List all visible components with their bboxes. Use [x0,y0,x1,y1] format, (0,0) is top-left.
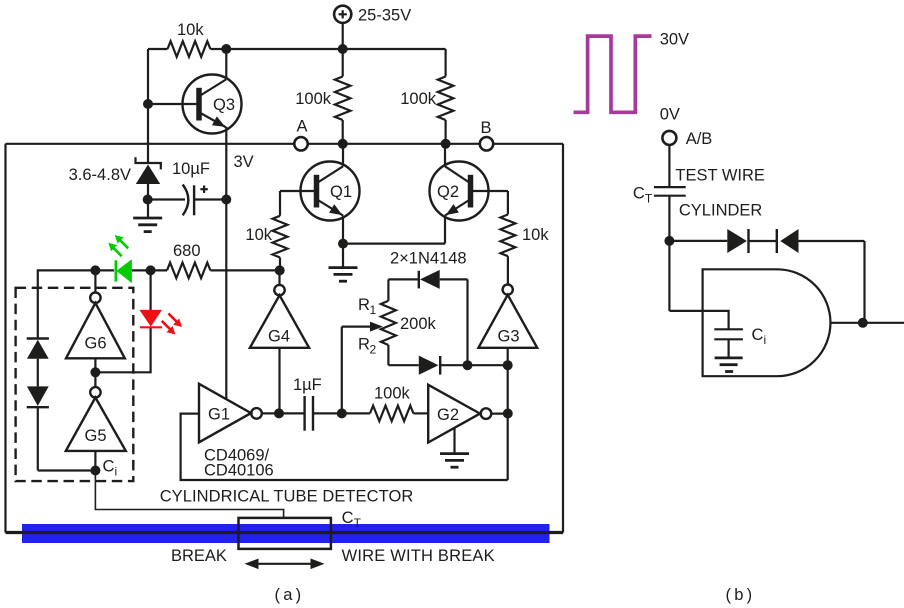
wire to Ci node [38,469,96,471]
wire Q3 emitter down to G1 [225,127,227,399]
svg-text:i: i [764,333,767,347]
svg-text:(b): (b) [726,586,756,604]
arrow double-headed [245,559,325,570]
svg-text:Q1: Q1 [330,183,352,201]
node dot A/B diode tap [664,236,674,246]
svg-text:G3: G3 [498,328,520,346]
node A terminal [294,137,307,150]
svg-text:CYLINDER: CYLINDER [679,202,763,220]
wire A-B top rail [6,143,564,145]
wire Ci to tube [95,471,283,518]
node dot Q3 base [143,99,153,109]
outer box left edge [4,144,6,533]
diode D6 (upper, cathode up) [27,339,49,387]
svg-text:200k: 200k [400,315,437,333]
node dot top rail / supply [338,44,348,54]
resistor 100k (A side) [342,49,344,77]
transistor Q1 [280,162,360,221]
tube box [239,518,331,549]
wire ground stub [342,244,344,268]
svg-text:T: T [645,192,653,206]
wire A/B down [668,145,670,187]
svg-text:(a): (a) [275,586,305,604]
inverter G4 [250,270,309,413]
wire wiper down [341,327,343,414]
svg-text:C: C [342,509,354,527]
wire Q2 base branch [507,191,509,215]
terminal A/B [662,131,676,145]
diode D7 (lower, cathode down) [27,386,49,470]
wire D1 right corner down [466,279,468,365]
wire feedback vertical x=508 [507,365,509,480]
wire top rail y=49 [148,48,168,50]
inverter G3 [478,285,537,366]
node dot 680 / 10k / G4 output [275,265,285,275]
outer box right edge [562,144,564,533]
ground (zener) [133,218,162,232]
blue wire [22,524,550,543]
wire Q1 base branch [279,191,281,216]
node dot gate output [858,318,868,328]
wire Ci ground stub [727,339,729,358]
resistor 100k (B side) [445,49,447,77]
inverter G5 [66,387,126,470]
svg-text:10µF: 10µF [172,160,210,178]
svg-text:G6: G6 [85,335,107,353]
svg-text:WIRE WITH BREAK: WIRE WITH BREAK [342,547,495,565]
svg-text:BREAK: BREAK [171,547,227,565]
node dot A / Q1 collector [338,139,348,149]
wire diode row [669,240,727,242]
wire supply drop [342,23,344,49]
node dot green LED / red LED / 680 [146,265,156,275]
LED green [108,235,132,283]
svg-text:G4: G4 [268,328,290,346]
wire Q1 collector [342,144,344,167]
svg-text:10k: 10k [522,226,549,244]
capacitor CT (b) [654,187,686,196]
svg-text:A: A [297,118,308,136]
waveform 30V pulse [574,36,652,112]
node dot B / Q2 collector [441,139,451,149]
svg-text:G1: G1 [208,406,230,424]
svg-text:R: R [358,336,370,354]
node dot D2 / D1 [463,360,473,370]
node dot zener/cap [143,195,153,205]
svg-text:A/B: A/B [686,130,713,148]
svg-text:CYLINDRICAL TUBE DETECTOR: CYLINDRICAL TUBE DETECTOR [160,488,414,506]
ground (Ci b) [715,358,743,372]
svg-text:TEST WIRE: TEST WIRE [675,166,765,184]
svg-text:3.6-4.8V: 3.6-4.8V [69,166,131,184]
wire emitters join [343,243,445,245]
wire gate input [669,311,728,329]
wire gate output [830,322,904,324]
potentiometer R1 R2 200k [342,279,396,365]
svg-text:G2: G2 [437,406,459,424]
svg-text:B: B [481,119,492,137]
node dot G2 output [503,409,513,419]
svg-text:1µF: 1µF [293,376,322,394]
wire Q1 emitter [342,216,344,244]
svg-text:100k: 100k [400,90,437,108]
svg-text:G5: G5 [85,427,107,445]
node dot Ci [90,466,100,476]
node dot G1 output [274,408,284,418]
svg-text:30V: 30V [660,31,689,49]
svg-text:C: C [752,326,764,344]
node B terminal [480,137,493,150]
wire diode to output [863,241,865,323]
svg-text:R: R [358,296,370,314]
svg-text:25-35V: 25-35V [358,7,411,25]
LED red [140,310,183,335]
svg-text:CD40106: CD40106 [204,462,274,480]
supply terminal 25-35V [334,6,351,23]
capacitor 1uF [279,396,342,431]
AND gate [703,269,831,376]
svg-text:1: 1 [370,303,377,317]
resistor 10k (Q2 base) [500,215,515,257]
svg-text:3V: 3V [234,153,254,171]
node dot G6 output / green LED [90,265,100,275]
svg-text:2×1N4148: 2×1N4148 [390,250,467,268]
svg-text:680: 680 [173,242,201,260]
diode D4 (cathode left) [777,229,865,253]
zener diode 3.6-4.8V [136,157,161,218]
node dot 1uF / wiper [337,408,347,418]
svg-text:C: C [633,185,645,203]
svg-text:0V: 0V [660,106,680,124]
wire red LED top [150,270,152,311]
wire Q3 collector up [225,49,227,80]
ground (G2) [440,454,469,468]
diode D1 (top 1N4148) [388,270,467,289]
inverter G2 [428,385,508,443]
transistor Q2 [430,162,508,221]
node dot top rail / Q3 collector [221,44,231,54]
transistor Q3 [148,75,242,134]
resistor 100k (G2 input) [342,412,370,414]
svg-text:Q2: Q2 [437,183,459,201]
wire left branch x=148 [147,49,149,163]
diode D2 (bottom 1N4148) [388,356,507,375]
wire G2 ground stub [453,427,455,454]
node dot G6 input / red LED [90,367,100,377]
svg-text:C: C [103,458,115,476]
wire bottom rail (through blue wire) [6,531,564,534]
inverter G1 [199,384,279,443]
wire Q2 collector [444,144,446,167]
wire LED row left [38,270,96,338]
svg-text:100k: 100k [295,90,332,108]
svg-text:T: T [354,516,362,530]
node dot D2 / G3 input [503,360,513,370]
capacitor Ci (b) [714,329,743,339]
inverter G6 [66,270,125,387]
resistor 680 [151,269,167,271]
wire green LED row [95,269,114,271]
node dot Q1 emitter [338,239,348,249]
node dot cap / emitter line [221,195,231,205]
svg-text:2: 2 [370,343,377,357]
wire bottom feedback rail [181,414,508,480]
wire CT down [668,196,670,311]
svg-text:10k: 10k [177,21,204,39]
capacitor 10uF [148,185,227,216]
resistor 10k (Q1 base) [273,216,288,258]
svg-text:i: i [115,465,118,479]
svg-text:100k: 100k [374,385,411,403]
svg-text:Q3: Q3 [213,96,235,114]
svg-text:10k: 10k [245,226,272,244]
dashed detector box [16,288,134,481]
diode D3 (cathode right) [727,229,777,253]
resistor 10k (top) [168,41,211,57]
wire red LED branch [95,327,150,372]
wire Q2 emitter [444,216,446,244]
ground (Q1 Q2 emitters) [329,268,358,282]
